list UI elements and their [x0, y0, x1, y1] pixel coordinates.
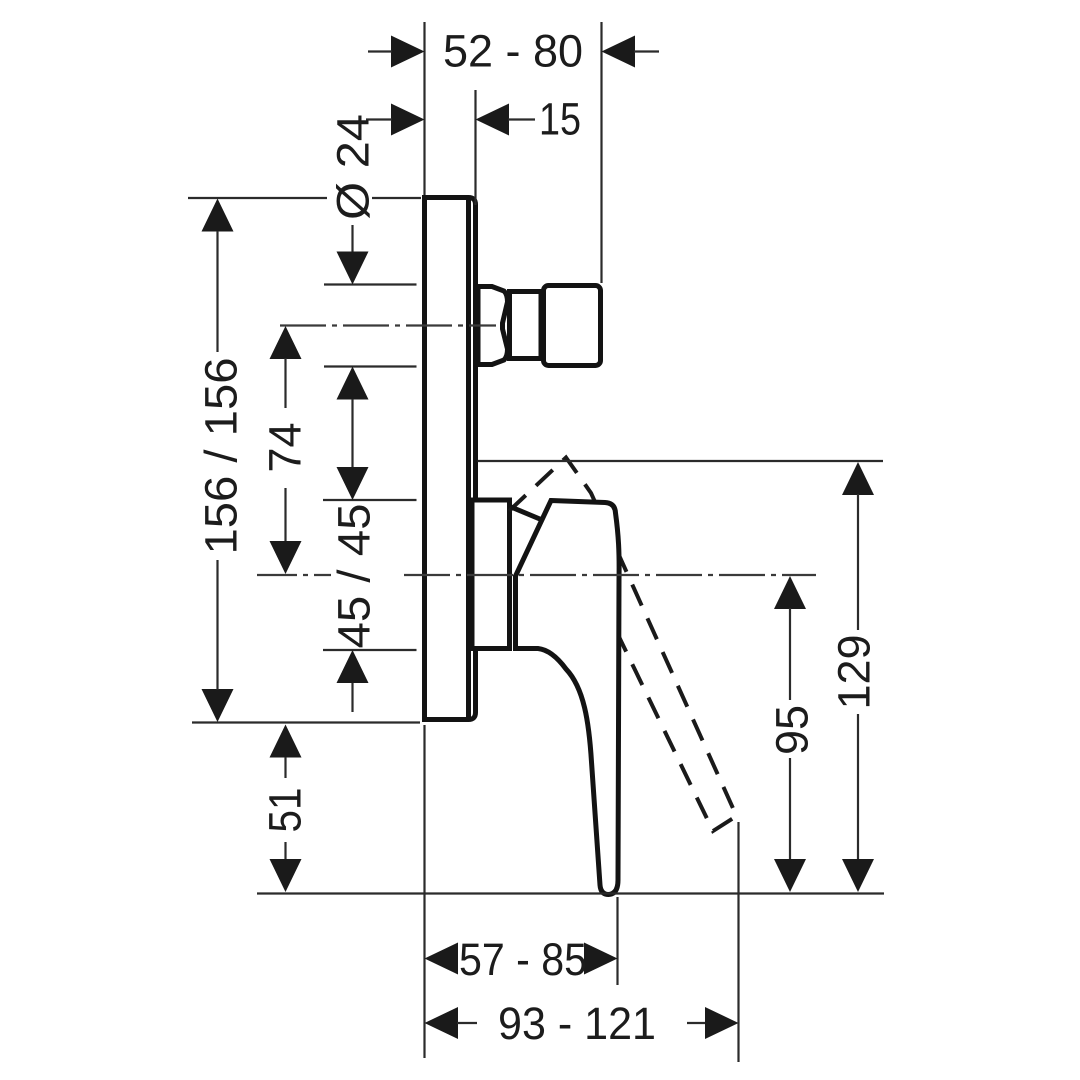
dimension 156/156 — [188, 198, 421, 723]
svg-text:95: 95 — [767, 705, 818, 755]
diverter knob cap — [544, 286, 601, 366]
dimension 52-80 — [368, 22, 659, 283]
diverter knob flange — [478, 287, 508, 365]
svg-text:45 / 45: 45 / 45 — [329, 504, 380, 649]
dimension 74 — [260, 326, 311, 574]
dimension 57-85 — [425, 725, 618, 1058]
handle body and lever blade — [516, 501, 620, 895]
bottom reference line — [257, 892, 884, 894]
svg-text:57 - 85: 57 - 85 — [459, 934, 587, 985]
svg-text:93 - 121: 93 - 121 — [498, 998, 656, 1049]
dimension 93-121 — [425, 822, 739, 1062]
knob axis centerline — [280, 324, 496, 326]
svg-text:129: 129 — [829, 634, 880, 709]
diverter knob collar — [510, 292, 542, 359]
lever top reference line — [478, 460, 884, 462]
svg-text:Ø 24: Ø 24 — [328, 114, 379, 220]
dimension 51 — [260, 725, 311, 893]
dimension 45/45 — [323, 467, 417, 712]
handle rear step edge — [511, 507, 541, 520]
escutcheon plate — [425, 198, 476, 720]
svg-text:74: 74 — [260, 422, 311, 472]
dimension Ø24 — [324, 114, 417, 469]
dimension 129 — [829, 462, 880, 892]
dashed lever (raised position) — [509, 458, 737, 832]
svg-text:51: 51 — [260, 788, 311, 833]
dimension 15 — [366, 90, 581, 205]
svg-text:52 - 80: 52 - 80 — [443, 26, 583, 77]
handle sleeve — [472, 500, 510, 649]
svg-text:15: 15 — [539, 94, 581, 145]
handle axis centerline — [257, 574, 816, 576]
svg-text:156 / 156: 156 / 156 — [196, 358, 247, 555]
dimension 95 — [767, 576, 818, 892]
